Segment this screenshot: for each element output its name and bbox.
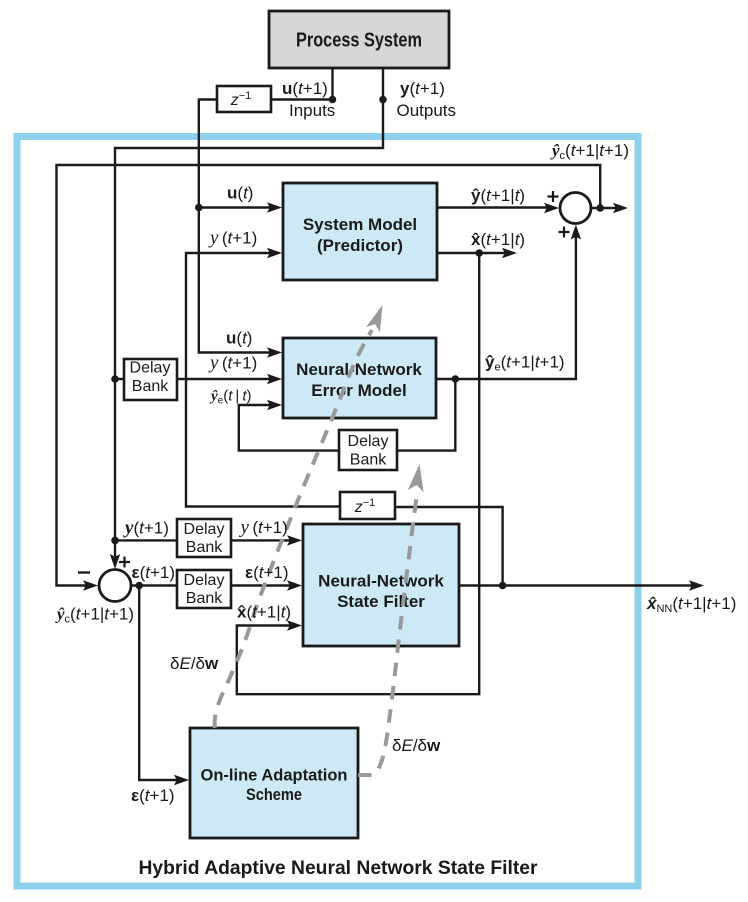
process system P1 <box>269 11 449 68</box>
svg-text:Neural-Network: Neural-Network <box>296 360 422 379</box>
svg-text:Hybrid Adaptive Neural Network: Hybrid Adaptive Neural Network State Fil… <box>139 858 539 879</box>
label minus S2 <box>78 571 90 573</box>
system model U1 <box>283 183 437 280</box>
wire yhat out to S1 <box>437 206 547 208</box>
wire B2 to yhat_e input <box>239 405 339 451</box>
wire z1 out down to u(t) inputs <box>199 100 270 353</box>
svg-text:x̂(t+1|t): x̂(t+1|t) <box>471 230 525 249</box>
arrow y into error model <box>267 374 282 384</box>
svg-text:ε(t+1): ε(t+1) <box>245 563 289 582</box>
ARROWHEADS <box>83 202 704 785</box>
svg-text:y (t+1): y (t+1) <box>208 228 257 249</box>
svg-text:System Model: System Model <box>303 215 417 234</box>
wire y lower branch to B3 <box>115 539 177 541</box>
node outputs tap <box>379 96 387 104</box>
wire error feedback via B2 <box>397 379 455 451</box>
wire B1 to error model <box>177 378 270 380</box>
svg-text:Scheme: Scheme <box>246 785 302 804</box>
svg-text:Bank: Bank <box>132 378 169 395</box>
wire inputs drop <box>331 68 333 100</box>
arrow eps into adaptation <box>174 775 189 785</box>
node y rail B3 tap <box>111 537 119 545</box>
gray arrowhead 1 <box>366 302 389 332</box>
delay bank B1 (left mid) <box>124 359 177 400</box>
outer system boundary (blue) <box>17 137 638 887</box>
wire B3 to state filter <box>231 539 290 541</box>
svg-text:δE/δw: δE/δw <box>170 654 219 673</box>
arrow error model out into S1 bottom <box>571 225 581 240</box>
svg-text:Inputs: Inputs <box>289 101 335 120</box>
arrow S1 out tip <box>613 203 628 213</box>
node u(t) tap <box>195 204 203 212</box>
svg-text:Bank: Bank <box>186 539 223 556</box>
svg-text:ŷe(t | t): ŷe(t | t) <box>209 388 251 407</box>
neural-network error model U2 <box>283 338 436 418</box>
wire u(t+1) to z1 <box>271 98 333 100</box>
arrow yhat into S1 <box>544 203 559 213</box>
node inputs tap <box>329 96 337 104</box>
delay bank B3 (y lower) <box>177 519 231 557</box>
wire z2 out up to y input rail <box>186 253 340 507</box>
summing junction S2 (lower left) <box>99 570 131 602</box>
label plus S1 bottom <box>559 227 570 238</box>
svg-text:ε(t+1): ε(t+1) <box>132 563 176 582</box>
wire y rail to delay bank B1 <box>115 378 124 380</box>
summing junction S1 (top right) <box>560 193 591 224</box>
delay bank B2 (error feedback) <box>339 430 397 470</box>
svg-text:On-line Adaptation: On-line Adaptation <box>201 766 348 785</box>
svg-text:Error Model: Error Model <box>311 381 406 400</box>
gray arrowhead 2 <box>408 463 428 492</box>
node xhat tap <box>475 249 483 257</box>
svg-text:x̂(t+1|t): x̂(t+1|t) <box>237 603 291 622</box>
svg-text:State Filter: State Filter <box>337 592 425 611</box>
wire S2 out to B4 <box>131 584 177 586</box>
svg-text:ε(t+1): ε(t+1) <box>131 786 175 805</box>
svg-text:(Predictor): (Predictor) <box>317 236 403 255</box>
svg-text:Bank: Bank <box>350 452 387 469</box>
delay z1 (top) <box>217 86 271 112</box>
svg-text:Delay: Delay <box>130 360 171 377</box>
arrow y(t+1) into state filter <box>287 535 302 545</box>
svg-text:Outputs: Outputs <box>397 101 457 120</box>
svg-text:y (t+1): y (t+1) <box>239 517 288 538</box>
wire outputs drop y(t+1) left rail <box>115 68 383 557</box>
wire xhat out <box>437 252 505 254</box>
wire xhat loop down to state filter <box>237 253 479 694</box>
wire u(t) branch to system model <box>199 206 270 208</box>
wire epsilon down to adaptation <box>139 586 177 781</box>
arrow eps into state filter <box>287 580 302 590</box>
arrow xhat into state filter <box>287 620 302 630</box>
on-line adaptation scheme U4 <box>190 728 358 838</box>
svg-text:ŷ(t+1|t): ŷ(t+1|t) <box>471 186 525 205</box>
svg-text:y(t+1): y(t+1) <box>400 79 445 98</box>
node eps tap <box>135 582 143 590</box>
wire S1 out <box>591 207 616 209</box>
svg-text:Neural-Network: Neural-Network <box>318 572 444 591</box>
svg-text:Delay: Delay <box>184 572 225 589</box>
node S1 out tap <box>596 204 604 212</box>
arrow u(t) into system model <box>267 202 282 212</box>
label plus S1 left <box>548 191 559 202</box>
svg-text:y (t+1): y (t+1) <box>208 353 257 374</box>
wire state filter out <box>459 584 692 586</box>
delay bank B4 (epsilon) <box>177 570 231 608</box>
arrow yc into S2 <box>83 580 98 590</box>
arrow u(t) into error model <box>267 347 282 357</box>
svg-text:y(t+1): y(t+1) <box>123 518 169 539</box>
delay z2 (mid) <box>340 492 395 519</box>
dashed gradient line 2 (adaptation to state filter) <box>358 497 417 775</box>
svg-text:Delay: Delay <box>184 521 225 538</box>
dashed gradient line 1 (adaptation to error model) <box>215 330 372 728</box>
svg-text:δE/δw: δE/δw <box>392 736 441 755</box>
svg-text:Delay: Delay <box>348 433 389 450</box>
node state out tap <box>499 582 507 590</box>
arrow yhat_e(t|t) into error model <box>267 400 282 410</box>
arrow state filter out tip <box>689 580 704 590</box>
svg-text:Process System: Process System <box>296 30 422 52</box>
label plus S2 <box>119 557 130 568</box>
svg-text:u(t+1): u(t+1) <box>282 79 328 98</box>
wire yc feedback rail <box>57 165 601 586</box>
node y rail B1 tap <box>111 375 119 383</box>
svg-text:Bank: Bank <box>186 590 223 607</box>
svg-text:u(t): u(t) <box>227 184 253 203</box>
svg-text:u(t): u(t) <box>226 329 252 348</box>
wire B4 to state filter <box>231 584 290 586</box>
arrow y rail into S2 top <box>110 554 120 569</box>
arrow xhat out tip <box>502 248 517 258</box>
wire error model out to S1 bottom <box>436 236 576 379</box>
arrow y into system model <box>267 248 282 258</box>
wire z2 feedback tap <box>395 507 503 586</box>
neural-network state filter U3 <box>303 524 459 646</box>
node yhat_e tap <box>452 375 460 383</box>
